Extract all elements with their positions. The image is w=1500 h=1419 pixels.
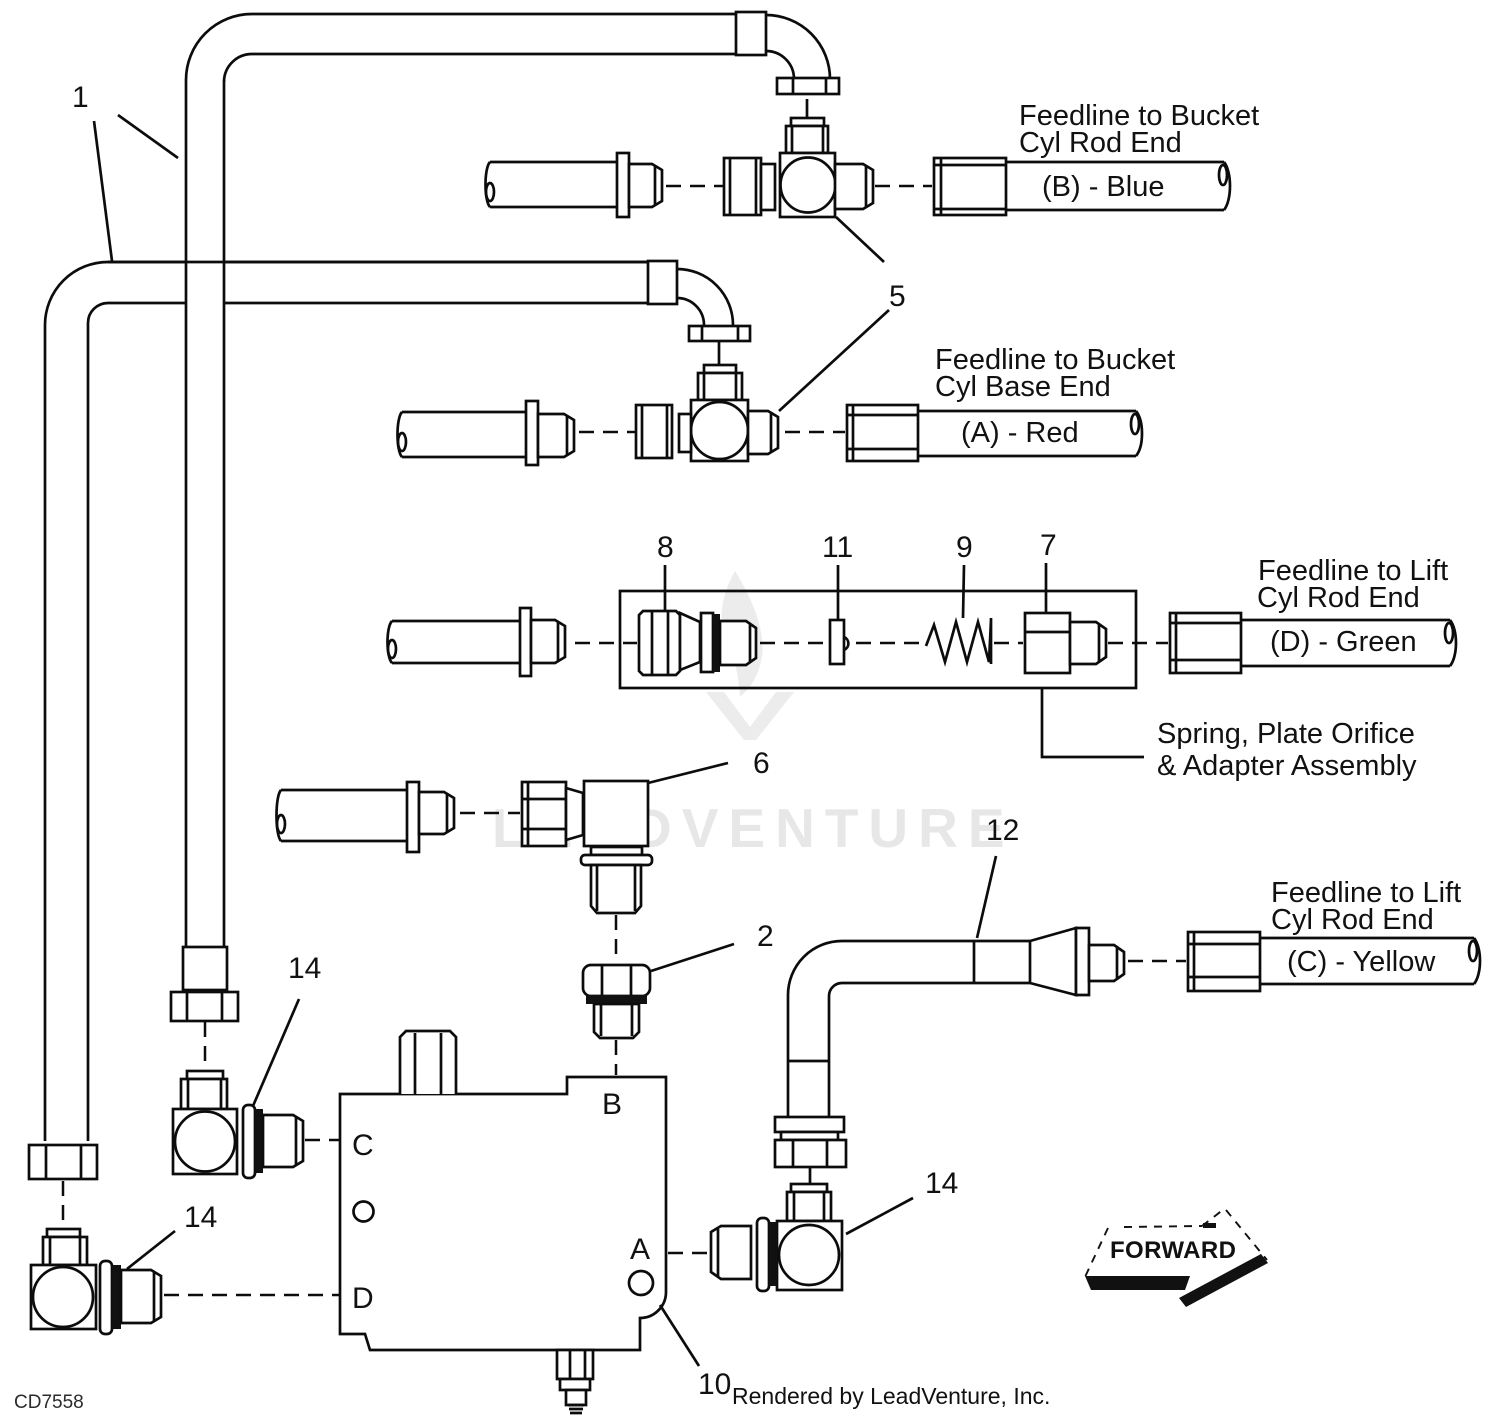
leader 14 upper (253, 999, 299, 1106)
dashed centerline tee 5 lower right (785, 431, 845, 434)
svg-text:A: A (630, 1233, 650, 1266)
elbow bend to tee 5 top (766, 15, 830, 79)
elbow 14 lower flange washer (100, 1261, 112, 1334)
tee 5 top flange (777, 78, 839, 94)
forward arrow black base band (1085, 1276, 1190, 1290)
tee 5 left coupler nut (724, 158, 761, 215)
hose 1 end block top right (736, 12, 766, 55)
svg-text:Cyl Rod End: Cyl Rod End (1271, 904, 1434, 936)
coupler right of tee 5 (934, 158, 1006, 215)
item 8 cone (680, 613, 700, 670)
svg-text:10: 10 (698, 1368, 731, 1401)
block right bolt circle (629, 1271, 653, 1295)
svg-text:14: 14 (925, 1167, 958, 1200)
hose 1 end ferrule (183, 947, 227, 990)
hose 2 end block (648, 261, 677, 304)
svg-text:D: D (352, 1282, 374, 1315)
coupler right of hose 12 (1188, 932, 1260, 991)
item 7 adapter body (1025, 613, 1070, 673)
elbow 14 right male port (711, 1226, 751, 1279)
svg-text:2: 2 (757, 920, 774, 953)
svg-text:Rendered by LeadVenture, Inc.: Rendered by LeadVenture, Inc. (732, 1383, 1050, 1409)
elbow bend to tee 5 lower (677, 269, 733, 325)
stem line into tee 5 (806, 99, 809, 117)
svg-text:9: 9 (956, 531, 973, 564)
svg-text:11: 11 (822, 531, 853, 564)
svg-text:1: 1 (72, 81, 89, 114)
hose stub left of assembly (388, 621, 521, 663)
hose 12 lower washer (775, 1117, 844, 1132)
hose stub male fitting (assembly row) (531, 620, 565, 663)
hose stub flange (tee 5 lower) (526, 401, 538, 465)
item 9 spring (926, 618, 991, 664)
hose stub flange (tee 5) (617, 153, 629, 217)
dashed line item 2 to port B (615, 1040, 618, 1075)
hose 12 bend (788, 941, 842, 996)
svg-text:5: 5 (889, 280, 906, 313)
svg-text:B: B (602, 1088, 622, 1121)
hose 12 lower collar (781, 1132, 838, 1140)
stem line to elbow 14 right (809, 1167, 812, 1184)
hose stub male fitting (elbow 6 row) (419, 792, 454, 834)
svg-text:& Adapter Assembly: & Adapter Assembly (1157, 750, 1417, 782)
tee fitting 5 (upper) top port (786, 118, 828, 153)
hose stub flange (elbow 6 row) (407, 782, 419, 852)
svg-text:14: 14 (184, 1201, 217, 1234)
block bottom port body (557, 1350, 593, 1379)
svg-text:12: 12 (986, 814, 1019, 847)
dashed centerline hose 12 to coupler C (1128, 960, 1186, 963)
item 2 plug nut (583, 965, 650, 996)
tee fitting 5 (upper) body (780, 153, 836, 217)
elbow 14 right top port (787, 1184, 831, 1221)
leader from tee 5 upper to label (836, 217, 884, 262)
tee 5 lower left coupler nut (636, 405, 672, 458)
block bottom port thread (566, 1390, 586, 1413)
valve block hex port top (400, 1031, 456, 1094)
item 11 orifice plate (830, 620, 848, 664)
dashed line elbow 14 right to port A (668, 1252, 709, 1255)
leader 14 right (846, 1198, 913, 1234)
forward arrow outline (1085, 1209, 1267, 1277)
block left upper bolt circle (354, 1202, 374, 1222)
hose stub male fitting (tee 5) (629, 164, 662, 207)
hose (B) Blue (1006, 162, 1230, 210)
svg-text:7: 7 (1040, 529, 1057, 562)
svg-text:Cyl Rod End: Cyl Rod End (1257, 582, 1420, 614)
hose 12 vertical tube (788, 995, 829, 1117)
elbow 14 upper male port (263, 1115, 303, 1167)
elbow 14 right seal ring (dark) (769, 1222, 777, 1286)
item 8 seal ring (dark) (713, 614, 720, 672)
hose (C) Yellow (1260, 938, 1480, 984)
hose 12 bell cone (1030, 928, 1089, 995)
elbow 14 right flange washer (757, 1218, 769, 1291)
hose 2 end nut (29, 1145, 97, 1179)
svg-text:C: C (352, 1129, 374, 1162)
block bottom port nut (560, 1379, 590, 1390)
coupler right of assembly (1170, 613, 1241, 673)
leader 12 (977, 856, 996, 938)
hose (A) Red (918, 411, 1142, 456)
elbow 14 lower body (31, 1265, 96, 1329)
leader line from 1 to hose 2 (94, 121, 112, 261)
tee fitting 5 (lower) top port (698, 365, 742, 400)
coupler right of tee 5 lower (847, 405, 918, 461)
hose stub male fitting (tee 5 lower) (538, 414, 574, 457)
hose 12 lower nut (775, 1140, 846, 1167)
dashed centerline tee 5 right (875, 185, 932, 188)
hose 12 male tip (1089, 945, 1124, 981)
forward arrow head notch dash (1203, 1223, 1216, 1228)
item 8 JIC fitting nut (639, 611, 680, 675)
dashed line elbow 14 upper to port C (305, 1139, 340, 1142)
hose 2 horizontal tube with left bend (45, 262, 648, 325)
dashed centerline tee 5 left (666, 185, 724, 188)
hose 2 vertical tube (45, 323, 88, 1141)
svg-text:CD7558: CD7558 (14, 1392, 84, 1413)
dashed line elbow 14 lower to port D (164, 1294, 340, 1297)
svg-text:8: 8 (657, 531, 674, 564)
item 7 male thread (1070, 622, 1106, 664)
svg-text:(A) - Red: (A) - Red (961, 417, 1079, 449)
tee 5 lower flange (689, 326, 750, 341)
leader from tee 5 lower to label (779, 310, 889, 411)
elbow 14 upper body (173, 1109, 237, 1174)
hose 12 horizontal tube (842, 941, 1030, 983)
item 8 male thread (720, 621, 756, 665)
watermark logo flame and V (706, 571, 794, 740)
svg-text:14: 14 (288, 952, 321, 985)
svg-text:FORWARD: FORWARD (1110, 1237, 1236, 1264)
hose (D) Green (1241, 620, 1456, 666)
leader 2 (651, 944, 734, 971)
svg-text:Cyl Rod End: Cyl Rod End (1019, 127, 1182, 159)
leader 14 lower (127, 1231, 175, 1269)
item 2 male thread (594, 1004, 639, 1038)
dashed centerline elbow 6 left (460, 812, 520, 815)
valve block body 10 (340, 1077, 666, 1350)
hose stub left of tee 5 (486, 162, 618, 207)
hose stub left of tee 5 lower (398, 412, 527, 457)
item 2 seal washer (dark) (586, 995, 647, 1004)
dashed centerline tee 5 lower left (579, 431, 636, 434)
elbow 6 bottom flange (591, 847, 642, 855)
tee 5 left adapter (761, 164, 775, 210)
leader 11 (837, 565, 840, 619)
dashed line hose 2 to elbow 14 lower (62, 1181, 65, 1228)
leader 10 (660, 1305, 699, 1366)
dashed line hose 1 to elbow 14 upper (204, 1022, 207, 1068)
svg-text:(C) - Yellow: (C) - Yellow (1287, 946, 1436, 978)
leader 7 (1045, 563, 1048, 612)
svg-text:Cyl Base End: Cyl Base End (935, 371, 1111, 403)
dashed centerline through assembly row (575, 642, 1168, 645)
elbow 14 lower top port (43, 1229, 87, 1265)
svg-text:(D) - Green: (D) - Green (1270, 626, 1417, 658)
item 8 washer (701, 613, 713, 672)
leader 6 (648, 763, 728, 783)
elbow 14 right body (777, 1221, 842, 1290)
leader 9 (963, 565, 964, 618)
forward arrow black head band (1179, 1254, 1268, 1307)
elbow 14 upper flange washer (243, 1105, 255, 1178)
hose stub left of elbow 6 (277, 790, 408, 841)
hose 1 top horizontal tube (186, 14, 736, 82)
elbow 6 cone (566, 788, 583, 840)
hose 1 end nut (171, 992, 238, 1021)
elbow 14 upper seal ring (dark) (255, 1109, 263, 1173)
hose 1 vertical tube (drawn over hose 2) (108, 80, 648, 947)
elbow 6 bottom nut (581, 855, 652, 865)
svg-text:(B) - Blue: (B) - Blue (1042, 171, 1164, 203)
dashed line elbow 6 to item 2 (615, 915, 618, 961)
elbow 6 body (584, 781, 648, 846)
tee 5 right male port (835, 164, 873, 209)
tee 5 lower right male port (748, 411, 778, 454)
stem line into tee 5 lower (718, 341, 721, 364)
elbow 14 upper top port (181, 1071, 227, 1109)
leader spring plate orifice text (1042, 688, 1144, 757)
tee 5 lower left adapter (679, 414, 691, 452)
elbow 14 lower male port (121, 1270, 161, 1323)
elbow 6 swivel nut (522, 782, 566, 846)
hose stub flange (assembly row) (520, 608, 531, 676)
assembly box (620, 591, 1136, 688)
elbow 6 male thread (591, 865, 641, 913)
elbow 14 lower seal ring (dark) (112, 1265, 121, 1329)
leader line from 1 to hose 1 (118, 115, 178, 158)
svg-text:6: 6 (753, 747, 770, 780)
leader 8 (664, 565, 667, 610)
svg-text:Spring, Plate Orifice: Spring, Plate Orifice (1157, 718, 1415, 750)
tee fitting 5 (lower) body (691, 400, 748, 461)
